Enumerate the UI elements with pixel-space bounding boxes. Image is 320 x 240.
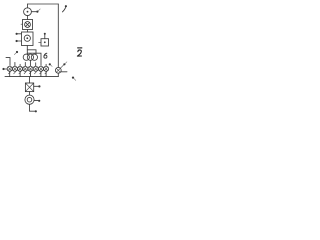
thyristor V3 [18, 66, 23, 71]
node terminal 7 [72, 77, 74, 79]
wire sensor to motor [29, 92, 31, 96]
wire source right lead [31, 11, 36, 13]
label Fig.2 [77, 48, 81, 56]
node terminal 8 [38, 85, 40, 87]
wire gate hatches [9, 72, 47, 74]
label 6 [44, 53, 47, 58]
motor M1 [25, 95, 34, 104]
thyristor V6 [33, 66, 38, 71]
node terminal 6 [63, 63, 65, 65]
wire mid phase [29, 60, 31, 66]
wire converter to exciter [27, 30, 29, 33]
firing box U3 [41, 39, 49, 46]
node terminal 5 [2, 68, 4, 70]
wire source top stub [27, 4, 29, 8]
sensor U4 [25, 83, 33, 92]
wire V9 right stub [61, 71, 67, 73]
wire source to converter [27, 16, 29, 20]
wire V9 to bus [57, 73, 59, 76]
node terminal 1 [36, 11, 38, 13]
wire top bus [28, 3, 59, 5]
wire row feed [5, 68, 8, 70]
wire right vertical [57, 4, 59, 67]
thyristor V1 [7, 66, 12, 71]
thyristor V9 [55, 67, 61, 73]
wire right phase [27, 53, 41, 65]
node gate dot [49, 63, 51, 65]
node terminal 10 [35, 110, 37, 112]
wire bus to sensor [29, 77, 31, 83]
thyristor V2 [12, 66, 17, 71]
node terminal 9 [38, 100, 40, 102]
exciter U2 [22, 32, 34, 46]
converter U1 [23, 20, 33, 30]
thyristor V7 [38, 66, 43, 71]
wire motor bottom [30, 104, 35, 111]
wire row stubs up [15, 62, 46, 66]
wire bottom bus [5, 76, 58, 78]
leader mark top right [63, 8, 66, 12]
transformer T1 [23, 54, 29, 60]
wire branch right [27, 50, 36, 54]
wire left phase [6, 58, 10, 66]
wire V9 leader [60, 65, 63, 68]
node terminal 2 [16, 33, 18, 35]
thyristor V5 [28, 66, 33, 71]
wire sensor right [34, 85, 39, 87]
thyristor V4 [23, 66, 28, 71]
wire exciter down [26, 46, 28, 55]
current source G1 [24, 8, 32, 16]
node terminal 4 [16, 51, 18, 53]
wire row links [12, 68, 44, 70]
node terminal 3 [16, 40, 18, 42]
wire row stubs down [10, 71, 46, 76]
thyristor V8 [44, 66, 49, 71]
wire motor right [34, 100, 38, 102]
